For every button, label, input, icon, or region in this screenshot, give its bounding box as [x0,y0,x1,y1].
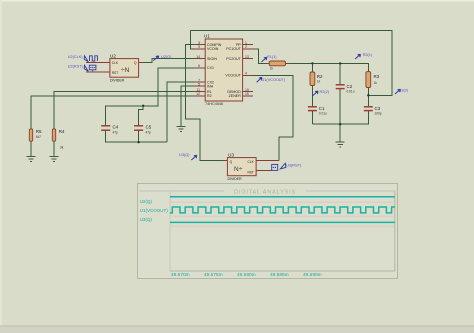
svg-text:C5: C5 [146,125,152,130]
svg-text:INH: INH [207,85,214,89]
svg-text:RST: RST [112,71,118,75]
svg-text:49.580m: 49.580m [237,272,256,278]
svg-text:R3(2): R3(2) [399,88,409,92]
svg-text:13: 13 [245,55,249,59]
svg-text:SIGIN: SIGIN [207,57,217,61]
svg-text:1: 1 [245,41,247,45]
svg-text:R4: R4 [59,129,65,134]
svg-text:U2(Q): U2(Q) [161,55,172,59]
svg-text:0.01u: 0.01u [347,90,355,94]
svg-text:49.575m: 49.575m [204,272,223,278]
svg-text:CX1: CX1 [207,66,214,70]
svg-text:R2: R2 [207,94,212,98]
svg-text:4: 4 [245,72,247,76]
svg-text:1k: 1k [317,79,321,83]
svg-text:4k7: 4k7 [36,135,41,139]
svg-text:1k: 1k [374,81,378,85]
svg-text:0.01u: 0.01u [319,112,327,116]
svg-text:N÷: N÷ [234,166,243,173]
svg-text:COMPIN: COMPIN [207,43,222,47]
svg-text:100p: 100p [375,112,382,116]
svg-text:DIVIDER: DIVIDER [228,177,243,181]
svg-text:R2: R2 [317,74,323,79]
svg-text:47p: 47p [113,131,119,135]
svg-text:U3(RST): U3(RST) [286,163,302,167]
svg-text:U2(CLK): U2(CLK) [68,55,84,59]
svg-text:6: 6 [198,64,200,68]
svg-text:R1(1): R1(1) [267,55,277,59]
svg-text:U2(RST): U2(RST) [68,64,84,68]
svg-text:C1: C1 [319,106,325,111]
svg-text:ZENER: ZENER [229,94,242,98]
svg-text:2: 2 [245,45,247,49]
svg-text:C4: C4 [113,125,119,130]
svg-text:U3(Q): U3(Q) [140,217,153,222]
svg-text:U3(Q): U3(Q) [179,153,190,157]
svg-text:14: 14 [196,55,200,59]
svg-text:49.590m: 49.590m [303,272,322,278]
svg-text:RST: RST [248,170,254,174]
svg-text:12: 12 [196,92,200,96]
svg-text:CLK: CLK [112,61,119,65]
svg-text:÷N: ÷N [121,67,130,74]
svg-text:R5: R5 [36,129,42,134]
svg-text:VCOOUT: VCOOUT [225,74,241,78]
svg-text:15: 15 [245,92,249,96]
svg-text:5: 5 [198,83,200,87]
svg-text:49.570m: 49.570m [171,272,190,278]
svg-text:PC2OUT: PC2OUT [226,57,241,61]
svg-text:47p: 47p [146,131,152,135]
svg-text:R2(2): R2(2) [320,90,330,94]
svg-text:49.585m: 49.585m [270,272,289,278]
svg-text:U1: U1 [204,34,210,39]
svg-text:R3(1): R3(1) [363,53,373,57]
svg-text:U2: U2 [110,53,116,58]
svg-text:3k: 3k [60,146,64,150]
svg-text:PP: PP [236,43,241,47]
svg-text:U3: U3 [228,153,234,158]
svg-text:1k: 1k [270,67,274,71]
svg-text:3: 3 [198,41,200,45]
svg-text:DIGITAL ANALYSIS: DIGITAL ANALYSIS [234,189,296,195]
svg-text:U1(VCOOUT): U1(VCOOUT) [140,208,169,213]
svg-text:R3: R3 [374,74,380,79]
svg-text:CLK: CLK [248,160,255,164]
svg-text:U2(Q): U2(Q) [140,199,153,204]
svg-text:PC1OUT: PC1OUT [226,47,241,51]
svg-text:C2: C2 [347,84,353,89]
svg-text:74HC4046: 74HC4046 [205,102,223,106]
svg-text:VCOIN: VCOIN [207,47,219,51]
svg-text:9: 9 [198,45,200,49]
svg-text:C3: C3 [375,106,381,111]
svg-text:U1(VCOOUT): U1(VCOOUT) [262,78,286,82]
svg-text:DIVIDER: DIVIDER [110,78,125,82]
